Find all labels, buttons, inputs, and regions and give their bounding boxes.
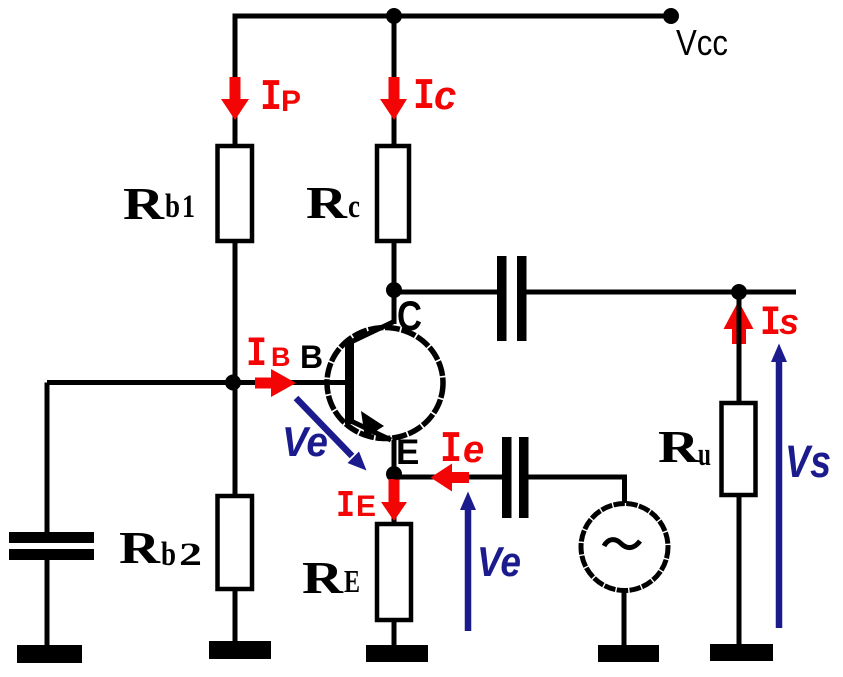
wire Ru to ground [737,495,742,646]
svg-text:I: I [413,72,435,122]
node output junction dot [731,284,747,300]
transistor Q1 collector stroke [351,322,393,342]
svg-text:s: s [779,301,799,342]
resistor Rb2 [218,496,253,589]
svg-text:I: I [336,485,355,528]
svg-text:E: E [356,490,376,523]
wire Rb2 to ground [233,589,238,644]
svg-text:R: R [123,178,165,229]
label Is [760,299,799,347]
resistor Rc [377,146,409,241]
svg-text:R: R [119,522,161,573]
node E junction dot [386,466,402,482]
svg-text:I: I [246,330,267,378]
svg-text:u: u [698,437,711,473]
transistor Q1 emitter arrowhead [361,411,384,438]
ground left [17,645,82,663]
svg-text:c: c [348,189,360,225]
svg-text:R: R [306,177,348,228]
label Rc [306,177,360,228]
capacitor C2 right plate [517,256,527,341]
label Ru [658,421,711,473]
svg-text:e: e [463,429,484,471]
node C junction dot [386,282,402,298]
transistor Q1 emitter stroke [351,421,391,440]
label RE [302,552,360,603]
voltage arrow Ve vertical [460,492,476,632]
node B junction dot [225,375,241,391]
wire top rail Vcc [235,14,671,19]
transistor Q1 base bar [345,339,354,424]
wire output node down to Ru [737,292,742,404]
capacitor C1 top plate [9,532,94,543]
voltage arrow Vs [771,344,787,629]
wire capacitor C1 to ground [45,558,50,647]
source V1 tilde [604,540,640,548]
svg-text:P: P [281,85,301,118]
node top junction [386,8,402,24]
wire emitter horizontal to capacitor C3 [394,475,502,480]
capacitor C3 right plate [519,437,529,518]
capacitor C2 left plate [497,256,507,341]
svg-text:2: 2 [179,537,202,573]
ground source [598,645,659,662]
wire left branch down to capacitor [45,383,50,535]
wire from rail down to Rb1 [233,14,238,147]
capacitor C3 left plate [502,437,512,518]
wire capacitor C3 to source [528,475,627,503]
label Rb2 [119,522,202,573]
transistor Q1 body circle [327,328,443,439]
svg-text:I: I [440,425,462,475]
svg-text:R: R [302,552,344,603]
resistor Ru [722,403,756,495]
wire RE to ground [392,620,397,647]
svg-text:E: E [344,563,360,599]
wire capacitor C2 to output node [526,290,796,295]
svg-text:c: c [434,74,456,118]
svg-text:Ve: Ve [282,418,328,465]
wire source to ground [622,592,627,647]
current arrow Ie [431,464,470,492]
svg-text:B: B [271,342,291,372]
wire Rb1 bottom down to Rb2 [233,241,238,497]
ground Rb2 [209,641,271,659]
capacitor C1 bottom plate [9,549,94,560]
current arrow Is [724,301,754,344]
label Ie [440,425,484,475]
label IC [413,72,456,122]
current arrow IP [221,77,249,120]
svg-text:B: B [300,339,323,375]
svg-text:b: b [161,536,176,573]
svg-text:I: I [260,73,282,123]
label IE [336,485,376,528]
voltage arrow Ve diagonal [296,398,367,471]
svg-text:1: 1 [182,189,195,225]
current arrow IE [381,479,407,521]
svg-text:Vs: Vs [785,436,831,487]
svg-text:R: R [658,421,700,472]
svg-text:E: E [396,433,419,472]
svg-text:I: I [760,299,781,347]
label IP [260,73,301,123]
svg-text:b: b [165,188,180,225]
label IB [246,330,291,378]
wire base horizontal [47,380,345,385]
resistor RE [377,524,411,620]
ground RE [366,645,428,662]
wire Rc bottom to transistor collector [392,241,397,324]
ground Ru [710,644,773,661]
svg-text:Vcc: Vcc [676,22,728,63]
source V1 circle [581,504,668,591]
wire emitter down from transistor [392,440,397,524]
current arrow IB [255,369,296,397]
node Vcc endpoint dot [663,8,679,24]
resistor Rb1 [218,146,253,241]
svg-text:Ve: Ve [477,538,521,585]
wire from rail down to Rc [392,14,397,147]
label Rb1 [123,178,195,229]
wire output to capacitor C2 [394,290,497,295]
current arrow IC [380,77,407,120]
